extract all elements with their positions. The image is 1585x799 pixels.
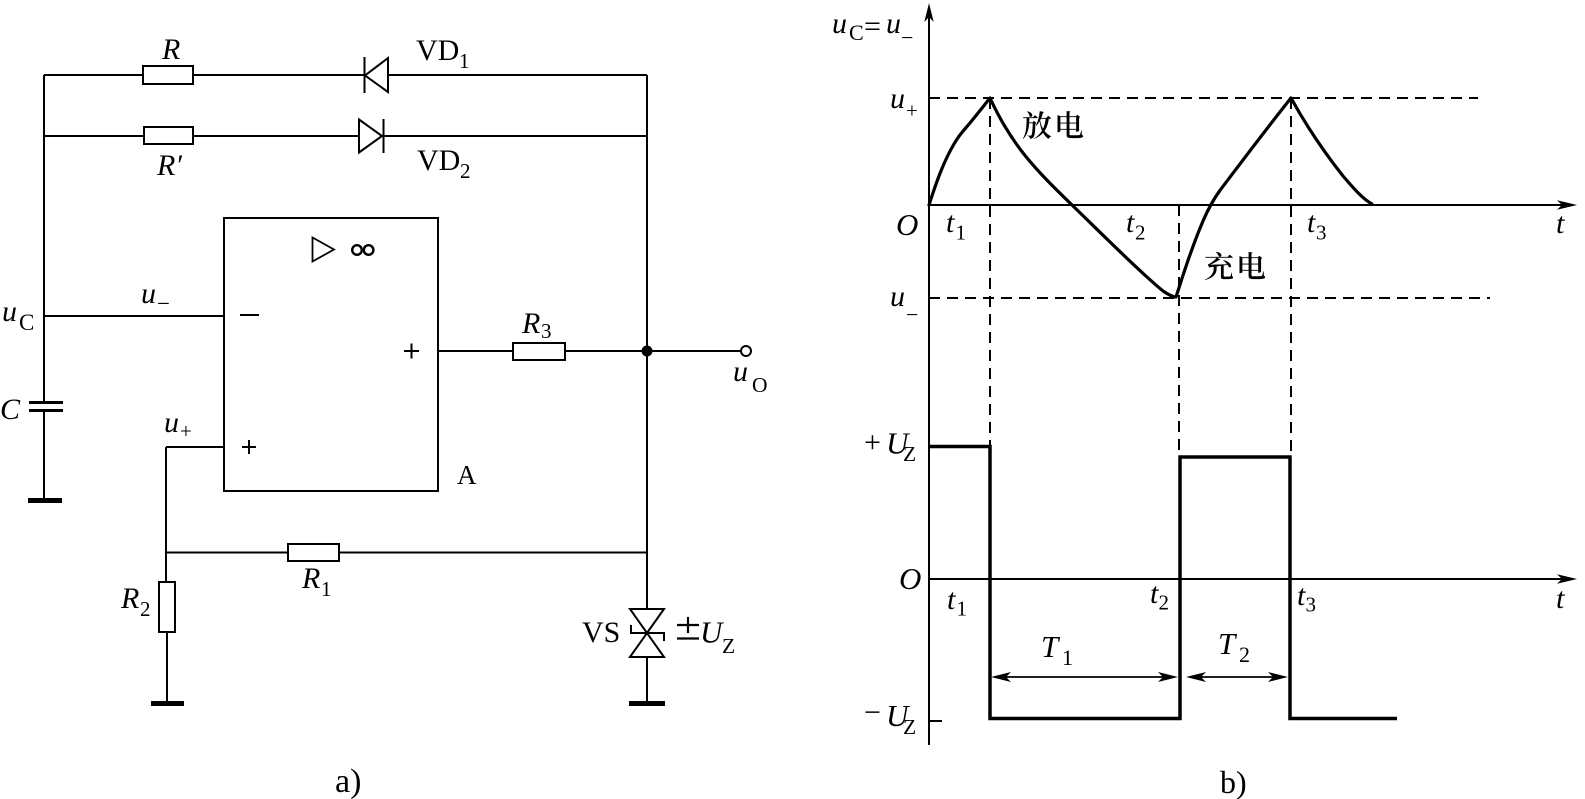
svg-text:1: 1 xyxy=(321,577,332,601)
svg-text:R′: R′ xyxy=(156,149,182,182)
svg-text:2: 2 xyxy=(1159,591,1170,615)
svg-text:=: = xyxy=(864,10,881,43)
svg-text:R: R xyxy=(120,582,139,615)
svg-text:−: − xyxy=(864,696,881,729)
svg-text:u: u xyxy=(733,355,748,388)
svg-text:2: 2 xyxy=(1135,221,1146,245)
svg-text:1: 1 xyxy=(1062,645,1073,670)
svg-text:t: t xyxy=(946,206,955,239)
svg-text:T: T xyxy=(1041,629,1061,664)
svg-text:u: u xyxy=(890,280,905,313)
svg-text:t: t xyxy=(1307,206,1316,239)
svg-text:T: T xyxy=(1218,626,1238,661)
svg-text:1: 1 xyxy=(956,221,967,245)
svg-text:t: t xyxy=(1126,206,1135,239)
svg-text:+: + xyxy=(864,426,881,459)
svg-text:VD: VD xyxy=(417,144,460,177)
svg-text:3: 3 xyxy=(1316,221,1327,245)
svg-text:−: − xyxy=(901,25,913,50)
svg-text:u: u xyxy=(832,7,847,40)
svg-text:R: R xyxy=(301,562,320,595)
svg-text:u: u xyxy=(141,277,156,310)
svg-text:A: A xyxy=(457,460,477,490)
svg-text:2: 2 xyxy=(1239,642,1250,667)
svg-text:u: u xyxy=(886,7,901,40)
svg-text:+: + xyxy=(180,419,192,443)
svg-text:O: O xyxy=(896,207,918,242)
svg-text:VD: VD xyxy=(416,34,459,67)
svg-text:2: 2 xyxy=(460,159,471,183)
svg-text:Z: Z xyxy=(903,442,916,466)
svg-text:t: t xyxy=(947,583,956,616)
svg-text:1: 1 xyxy=(459,49,470,73)
svg-text:R: R xyxy=(521,307,540,340)
svg-text:VS: VS xyxy=(582,616,620,649)
svg-text:1: 1 xyxy=(957,597,968,621)
svg-text:u: u xyxy=(164,406,179,439)
svg-text:u: u xyxy=(890,82,905,115)
svg-text:+: + xyxy=(906,99,918,123)
svg-text:3: 3 xyxy=(1306,593,1317,617)
svg-text:3: 3 xyxy=(541,319,552,343)
svg-text:−: − xyxy=(157,291,170,316)
svg-text:O: O xyxy=(899,561,921,596)
svg-text:C: C xyxy=(849,20,864,45)
svg-text:t: t xyxy=(1556,207,1565,240)
svg-text:u: u xyxy=(2,295,17,328)
svg-text:O: O xyxy=(752,373,768,397)
svg-text:C: C xyxy=(19,310,34,335)
svg-text:R: R xyxy=(161,33,180,66)
svg-text:C: C xyxy=(0,393,21,426)
svg-text:t: t xyxy=(1556,582,1565,615)
svg-text:Z: Z xyxy=(722,634,735,658)
svg-text:a): a) xyxy=(335,763,361,799)
svg-text:b): b) xyxy=(1220,764,1247,799)
svg-text:2: 2 xyxy=(140,597,151,621)
svg-text:−: − xyxy=(906,302,918,327)
svg-text:Z: Z xyxy=(903,715,916,739)
